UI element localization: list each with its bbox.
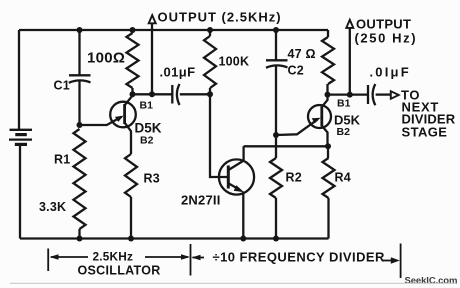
node: R3 to ground rail junction [128,236,134,242]
wire: 250Hz output riser [349,28,351,95]
arrow: OUTPUT 2.5kHz terminal [149,15,156,23]
node: 2.5kHz output tap [149,91,155,97]
node: C1 top on supply rail [77,27,83,33]
wire: top rail down to C2 [275,30,277,60]
svg-text:100Ω: 100Ω [87,50,125,67]
node: B1 junction of Q3 (47Ω bottom) [325,92,331,98]
node: Q3 B2 / R4 / collector rail junction [325,143,331,149]
svg-text:3.3K: 3.3K [39,200,66,214]
svg-text:B2: B2 [140,135,154,147]
node: emitter junction (C1/R1/Q1-E) [77,122,83,128]
resistor 47Ω (Q3 B1 load, hangs from rail end) [322,30,334,95]
node: B1 junction of Q1 (100Ω bottom) [130,91,136,97]
wire: output riser (crosses supply rail) [151,23,153,94]
transistor Q2 2N2711 NPN [219,146,254,194]
wire: right cap to next stage arrow [376,93,391,95]
wire: C2 down to Q3 emitter node [275,66,277,135]
wire: bottom ground rail [20,237,329,239]
svg-text:OSCILLATOR: OSCILLATOR [78,264,161,278]
capacitor C2 [266,60,288,68]
dimension arrow: divider right (points right) [383,257,400,264]
decorative faint scan line [10,282,456,284]
node: 250Hz output tap [347,92,353,98]
emitter lead of Q1 with arrow [80,117,122,125]
wire: Q3 B1 node horizontal to right coupling cap [328,93,368,95]
capacitor C1 [69,75,91,83]
svg-text:R3: R3 [144,172,160,186]
dimension arrow: oscillator left (points left) [50,254,89,260]
pin B1 lead of Q3 [322,95,328,107]
capacitor .01µF coupling (left) [172,84,179,105]
transistor Q3 D5K unijunction [276,95,331,147]
wire: cap to 100K bottom node [180,93,210,95]
svg-text:.0IμF: .0IμF [370,65,411,80]
wire: Q2 collector rail over to R4/B2 node [244,145,328,147]
svg-text:SeekIC.com: SeekIC.com [405,276,458,287]
wire: C1 to emitter node of Q1 [78,81,80,125]
label TO NEXT DIVIDER STAGE [401,88,456,140]
wire: battery - terminal down to bottom ground rail [19,144,21,238]
resistor R1 3.3K [74,129,86,229]
svg-text:C1: C1 [54,79,70,93]
svg-text:D5K: D5K [135,121,162,136]
wire: Q2 emitter down to ground rail [242,192,244,239]
transistor Q1 D5K unijunction [80,94,136,133]
node: C2 top on supply rail [273,27,279,33]
node: R2 to ground rail junction [273,236,279,242]
dimension arrow: divider left (points left) [192,255,205,261]
svg-text:2N27II: 2N27II [181,193,221,208]
svg-text:(250 Hz): (250 Hz) [355,31,418,46]
pin B2 lead of Q1 [125,123,131,133]
svg-text:100K: 100K [219,55,250,69]
svg-text:OUTPUT (2.5KHz): OUTPUT (2.5KHz) [158,10,282,25]
node: R1 to ground rail junction [77,236,83,242]
dimension tick: right end of divider section [400,244,402,279]
capacitor .01µF coupling (right) [368,84,375,105]
emitter lead of Q2 with arrow [229,183,240,189]
svg-text:2.5KHz: 2.5KHz [93,250,134,264]
svg-text:STAGE: STAGE [402,125,448,140]
node: 100K top on supply rail [207,27,213,33]
wire: B1 node horizontal to coupling cap [133,93,173,95]
svg-text:C2: C2 [288,64,304,78]
emitter lead of Q3 with arrow [276,120,318,136]
wire: Q1 B2 down to R3 [130,133,132,154]
node: 100K bottom / Q2 base junction [207,91,213,97]
svg-text:OUTPUT: OUTPUT [356,17,411,32]
wire: 100K node down and over to Q2 base [210,94,228,177]
arrow: to next divider stage [391,91,399,99]
resistor R2 (crosses collector rail, no joint) [270,135,282,239]
dimension tick: left end of oscillator section [47,249,49,272]
svg-text:47 Ω: 47 Ω [288,47,316,61]
node: Q3 emitter junction (C2/R2/Q3-E) [273,132,279,138]
wire: top rail down to C1 [78,30,80,75]
svg-text:.01μF: .01μF [160,65,196,80]
svg-text:B1: B1 [140,100,154,112]
wire: R3 bottom to ground rail [130,197,132,239]
resistor R3 [125,154,137,197]
battery (supply cells) [9,130,32,145]
svg-text:B2: B2 [337,126,351,138]
dimension arrow: oscillator right (points right) [145,254,190,260]
svg-text:R4: R4 [335,171,351,185]
svg-text:R1: R1 [54,153,70,167]
dimension tick: between oscillator and divider [190,244,192,276]
wire: R1 bottom to ground rail [78,229,80,239]
node: Q2 emitter to ground junction [240,236,246,242]
svg-text:B1: B1 [337,98,351,110]
pin B2 lead of Q3 [322,126,328,146]
pin B1 lead of Q1 [125,94,132,105]
resistor R4 [323,146,335,238]
svg-text:÷10 FREQUENCY DIVIDER: ÷10 FREQUENCY DIVIDER [213,250,386,265]
resistor 100K [204,30,216,94]
node: 100Ω top on supply rail [130,27,136,33]
svg-text:R2: R2 [286,171,302,185]
resistor 100Ω (Q1 B1 load) [127,30,139,94]
collector lead of Q2 [229,146,244,170]
wire: top positive supply rail [19,29,328,31]
wire: left vertical from top rail to battery + terminal [18,30,20,129]
arrow: OUTPUT 250Hz terminal [346,20,353,28]
